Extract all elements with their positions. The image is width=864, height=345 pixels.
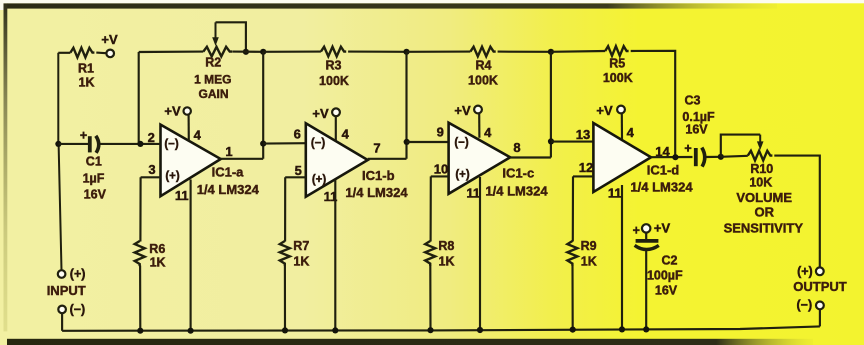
label (−) input IC1-b — [311, 138, 326, 150]
label GAIN — [199, 87, 229, 101]
pin 12 IC1-d — [579, 160, 593, 175]
wire: R1 to +V terminal — [96, 52, 106, 55]
label IC1-b — [362, 168, 395, 183]
input terminal (+) — [58, 270, 66, 278]
label C3 — [685, 93, 701, 107]
junction: C1 / feedback / pin2 — [137, 141, 143, 147]
svg-text:INPUT: INPUT — [47, 283, 86, 298]
svg-text:R8: R8 — [438, 239, 454, 253]
label +V (IC1-d) — [596, 103, 613, 118]
label R1 — [78, 62, 94, 76]
svg-text:1K: 1K — [79, 76, 95, 90]
svg-text:3: 3 — [148, 162, 155, 177]
wire: top rail riser3 to R4 — [407, 51, 471, 53]
wire: R10 left lead — [721, 156, 748, 157]
wire: pin11 column IC1-c — [479, 177, 481, 330]
wire: pin3 column / R6 column — [139, 177, 142, 330]
value 16V (C1) — [84, 187, 107, 201]
output terminal (+) — [816, 267, 824, 275]
label R7 — [293, 239, 309, 253]
pin 14 IC1-d — [655, 144, 670, 159]
svg-text:1µF: 1µF — [83, 172, 105, 186]
junction: riser2 / pin6 branch — [260, 141, 266, 147]
junction: rail / output riser stage3 — [548, 49, 554, 55]
wire: pin9 branch to IC1-c — [407, 141, 449, 143]
label (−) output — [796, 298, 812, 312]
pin 11 IC1-d — [608, 185, 622, 200]
label 1/4 LM324 (IC1-d) — [630, 180, 693, 195]
resistor R6 — [135, 241, 145, 266]
label INPUT — [47, 283, 86, 298]
value 1K (R7) — [293, 255, 309, 269]
pin 3 IC1-a — [148, 162, 155, 177]
wire: top rail riser4 to R5 — [551, 50, 605, 53]
svg-text:11: 11 — [466, 186, 480, 201]
svg-text:(+): (+) — [70, 267, 86, 281]
svg-text:1K: 1K — [581, 255, 597, 269]
pin 7 IC1-b — [373, 141, 380, 156]
resistor R8 — [425, 241, 435, 266]
svg-text:IC1-d: IC1-d — [647, 163, 680, 178]
wire: input (−) to ground rail — [61, 313, 63, 330]
label R3 — [326, 58, 342, 72]
svg-text:1 MEG: 1 MEG — [194, 73, 231, 87]
pin 8 IC1-c — [513, 140, 520, 155]
value 1K (R8) — [439, 255, 455, 269]
label (−) input IC1-a — [164, 139, 179, 151]
power +V terminal (IC1-d) — [617, 106, 625, 114]
svg-text:11: 11 — [175, 188, 189, 203]
wire: IC1-c output to riser4 — [510, 52, 551, 158]
svg-text:+V: +V — [101, 32, 118, 47]
label +V (IC1-b) — [312, 106, 329, 121]
wire: C1 to pin2 junction — [100, 143, 141, 145]
label (+) input — [70, 267, 86, 281]
label 1/4 LM324 (IC1-b) — [345, 185, 408, 200]
svg-text:11: 11 — [608, 185, 622, 200]
value 0.1µF (C3) — [682, 110, 715, 124]
junction: ground rail / pin11-b — [332, 327, 338, 333]
svg-text:(+): (+) — [797, 264, 813, 278]
pin 4 IC1-a — [194, 127, 202, 142]
capacitor C2 — [635, 233, 659, 250]
junction: ground rail / R7 — [282, 327, 288, 333]
svg-text:R9: R9 — [581, 239, 597, 253]
wire: pin4 IC1-a to +V — [188, 115, 190, 141]
svg-text:+V: +V — [654, 220, 671, 235]
junction: ground rail / C2 — [643, 326, 649, 332]
power +V terminal (IC1-b) — [332, 108, 340, 116]
label 1/4 LM324 (IC1-c) — [485, 183, 548, 198]
svg-text:9: 9 — [437, 125, 444, 140]
svg-text:+: + — [633, 224, 640, 238]
svg-text:GAIN: GAIN — [199, 87, 229, 101]
junction: rail / output riser stage1 — [260, 49, 266, 55]
op-amp U1 IC1-b — [306, 123, 368, 196]
wire: pin10 column / R8 column — [429, 176, 432, 330]
label R6 — [149, 242, 165, 256]
label R5 — [609, 57, 625, 71]
svg-text:1/4 LM324: 1/4 LM324 — [345, 185, 408, 200]
value 16V (C2) — [655, 284, 678, 298]
pin 4 IC1-b — [342, 126, 350, 141]
svg-text:C1: C1 — [86, 154, 102, 168]
wire: C2 to ground rail — [645, 249, 647, 330]
potentiometer R2 — [203, 22, 232, 56]
resistor R9 — [567, 241, 577, 266]
power +V terminal (IC1-a) — [184, 107, 191, 114]
svg-text:1/4 LM324: 1/4 LM324 — [197, 182, 260, 197]
label R10 — [750, 162, 773, 176]
svg-text:(−): (−) — [164, 139, 179, 151]
pin 13 IC1-d — [576, 127, 590, 142]
label R4 — [476, 59, 492, 73]
value 100K (R3) — [319, 74, 349, 88]
svg-text:R5: R5 — [609, 57, 625, 71]
wire: feedback riser stage1 (rail to pin2 node) — [138, 52, 140, 144]
power +V terminal (R1) — [106, 50, 114, 58]
op-amp U1 IC1-c — [449, 123, 511, 194]
label C1 — [86, 154, 102, 168]
svg-text:C2: C2 — [662, 253, 678, 267]
pin 5 IC1-b — [295, 163, 302, 178]
svg-text:VOLUME: VOLUME — [736, 190, 792, 205]
pin 2 IC1-a — [148, 130, 155, 145]
wire: R2 wiper loop — [216, 22, 246, 52]
svg-text:IC1-c: IC1-c — [502, 166, 534, 181]
svg-text:(−): (−) — [70, 302, 86, 316]
wire: pin3 stub IC1-a — [141, 176, 161, 178]
svg-text:10: 10 — [434, 162, 448, 177]
wire: pin4 IC1-b to +V — [335, 116, 337, 140]
value 100K (R4) — [468, 74, 498, 88]
svg-text:+V: +V — [596, 103, 613, 118]
label +V (C2) — [654, 220, 671, 235]
svg-text:IC1-b: IC1-b — [362, 168, 395, 183]
polarity + (C1) — [80, 129, 87, 143]
svg-text:1K: 1K — [150, 256, 166, 270]
svg-text:12: 12 — [579, 160, 593, 175]
svg-text:16V: 16V — [84, 187, 107, 201]
svg-text:+: + — [684, 141, 691, 155]
svg-text:16V: 16V — [655, 284, 678, 298]
svg-text:OUTPUT: OUTPUT — [793, 279, 847, 294]
wire: R10 to output (+) drop — [774, 156, 820, 268]
pin 11 IC1-b — [324, 189, 338, 204]
svg-text:100K: 100K — [319, 74, 349, 88]
wire: IC1-a output to riser2 — [221, 52, 264, 159]
label (−) input IC1-c — [454, 137, 469, 149]
label R8 — [438, 239, 454, 253]
svg-text:4: 4 — [342, 126, 350, 141]
power +V terminal (C2) — [642, 224, 650, 232]
label VOLUME — [736, 190, 792, 205]
wire: top rail riser2 to R3 — [263, 51, 321, 53]
junction: ground rail / R9 — [570, 327, 576, 333]
label OUTPUT — [793, 279, 847, 294]
junction: ground rail / R6 — [137, 328, 143, 334]
wire: pin11 column IC1-b — [334, 180, 336, 331]
polarity + (C2) — [633, 224, 640, 238]
svg-text:R10: R10 — [750, 162, 773, 176]
junction: ground rail / R8 — [427, 327, 433, 333]
pin 9 IC1-c — [437, 125, 444, 140]
wire: C1 left lead — [58, 143, 88, 145]
svg-text:6: 6 — [294, 126, 301, 141]
power +V terminal (IC1-c) — [474, 106, 482, 114]
label +V (IC1-a) — [164, 103, 181, 118]
svg-text:OR: OR — [755, 204, 775, 219]
svg-text:+V: +V — [164, 103, 181, 118]
svg-text:1/4 LM324: 1/4 LM324 — [485, 183, 548, 198]
capacitor C1 — [90, 136, 99, 153]
label OR — [755, 204, 775, 219]
label 1/4 LM324 (IC1-a) — [197, 182, 260, 197]
wire: left vertical rail (input to C1/R1) — [58, 53, 61, 270]
svg-text:5: 5 — [295, 163, 302, 178]
capacitor C3 — [696, 148, 705, 167]
pin 11 IC1-c — [466, 186, 480, 201]
value 1K (R9) — [581, 255, 597, 269]
wire: R1 left lead from left rail corner — [58, 52, 70, 54]
pin 1 IC1-a — [225, 144, 232, 159]
pin 10 IC1-c — [434, 162, 448, 177]
wire: pin4 IC1-c to +V — [478, 113, 480, 137]
wire: top rail R5 to right corner + drop to pin14 — [631, 51, 676, 158]
svg-text:(+): (+) — [312, 174, 327, 186]
svg-text:(+): (+) — [455, 169, 470, 181]
svg-text:(−): (−) — [454, 137, 469, 149]
resistor R4 — [470, 47, 495, 57]
svg-text:8: 8 — [513, 140, 520, 155]
wire: top rail segment R2-left — [139, 51, 204, 54]
value 10K (R10) — [749, 175, 772, 189]
wire: pin6 branch to IC1-b — [263, 142, 306, 145]
svg-text:+V: +V — [454, 103, 471, 118]
svg-text:+V: +V — [312, 106, 329, 121]
junction: output / riser5 — [672, 154, 678, 160]
label (+) output — [797, 264, 813, 278]
label (−) input — [70, 302, 86, 316]
potentiometer R10 — [748, 135, 773, 161]
svg-text:R7: R7 — [293, 239, 309, 253]
wire: top rail R3 to riser3 — [348, 51, 406, 53]
value 100µF (C2) — [647, 269, 683, 283]
wire: C3 to R10 node — [706, 156, 721, 158]
resistor R3 — [321, 47, 346, 57]
label R9 — [581, 239, 597, 253]
label R2 — [205, 56, 221, 70]
wire: IC1-d output to C3 — [651, 156, 693, 158]
junction: riser3 / pin9 branch — [404, 139, 410, 145]
op-amp U1 IC1-d — [593, 123, 651, 192]
svg-text:R3: R3 — [326, 58, 342, 72]
op-amp U1 IC1-a — [161, 125, 221, 197]
wire: pin11 column IC1-d — [621, 185, 623, 330]
value 16V (C3) — [685, 123, 708, 137]
svg-text:+: + — [80, 129, 87, 143]
wire: R10 wiper loop — [721, 135, 760, 157]
value 1K (R6) — [150, 256, 166, 270]
junction: ground rail / pin11-d — [619, 326, 625, 332]
value 1 MEG (R2) — [194, 73, 231, 87]
label SENSITIVITY — [724, 220, 804, 235]
output terminal (−) — [816, 302, 824, 310]
svg-text:13: 13 — [576, 127, 590, 142]
wire: pin4 IC1-d to +V — [621, 113, 623, 139]
svg-text:10K: 10K — [749, 175, 772, 189]
wire: pin2 stub IC1-a — [140, 143, 160, 145]
svg-text:100K: 100K — [468, 74, 498, 88]
value 1K (R1) — [79, 76, 95, 90]
svg-text:4: 4 — [627, 125, 635, 140]
resistor R5 — [605, 46, 628, 56]
label (+) input IC1-a — [165, 171, 180, 183]
svg-text:4: 4 — [194, 127, 202, 142]
label C2 — [662, 253, 678, 267]
wire: pin13 branch to IC1-d — [551, 141, 593, 143]
svg-text:R4: R4 — [476, 59, 492, 73]
junction: R2 wiper / rail — [243, 49, 249, 55]
svg-text:R6: R6 — [149, 242, 165, 256]
junction: ground rail / pin11-c — [477, 327, 483, 333]
resistor R1 — [70, 48, 94, 58]
wire: pin5 column / R7 column — [284, 177, 286, 330]
pin 4 IC1-c — [484, 125, 492, 140]
resistor R7 — [280, 241, 290, 266]
svg-text:C3: C3 — [685, 93, 701, 107]
svg-text:R1: R1 — [78, 62, 94, 76]
wire: pin12 stub IC1-d — [573, 175, 593, 177]
svg-text:SENSITIVITY: SENSITIVITY — [724, 220, 804, 235]
junction: ground rail / pin11-a — [188, 328, 194, 334]
wire: ground rail — [62, 326, 820, 330]
pin 11 IC1-a — [175, 188, 189, 203]
wire: pin10 stub IC1-c — [431, 175, 449, 177]
svg-text:IC1-a: IC1-a — [212, 165, 245, 180]
wire: pin11 column IC1-a — [190, 180, 192, 331]
wire: IC1-b output to riser3 — [368, 52, 407, 159]
svg-text:(+): (+) — [165, 171, 180, 183]
label (+) input IC1-b — [312, 174, 327, 186]
svg-text:(−): (−) — [796, 298, 812, 312]
junction: riser4 / pin13 branch — [548, 138, 554, 144]
pin 4 IC1-d — [627, 125, 635, 140]
svg-text:100µF: 100µF — [647, 269, 683, 283]
wire: pin5 stub IC1-b — [285, 176, 306, 178]
svg-text:1K: 1K — [439, 255, 455, 269]
pin 6 IC1-b — [294, 126, 301, 141]
label (+) input IC1-c — [455, 169, 470, 181]
junction: rail / output riser stage2 — [403, 49, 409, 55]
svg-text:16V: 16V — [685, 123, 708, 137]
svg-text:(−): (−) — [311, 138, 326, 150]
label +V (IC1-c) — [454, 103, 471, 118]
label IC1-c — [502, 166, 534, 181]
label +V (R1) — [101, 32, 118, 47]
value 100K (R5) — [603, 71, 633, 85]
svg-text:100K: 100K — [603, 71, 633, 85]
wire: pin12 column / R9 column — [571, 176, 574, 330]
label IC1-a — [212, 165, 245, 180]
label IC1-d — [647, 163, 680, 178]
value 1µF (C1) — [83, 172, 105, 186]
svg-text:7: 7 — [373, 141, 380, 156]
junction: C3 / R10 wiper loop — [718, 154, 724, 160]
svg-text:4: 4 — [484, 125, 492, 140]
svg-text:1/4 LM324: 1/4 LM324 — [630, 180, 693, 195]
wire: top rail R4 to riser4 — [498, 51, 551, 53]
svg-text:1: 1 — [225, 144, 232, 159]
wire: output (−) drop to ground rail — [819, 310, 821, 327]
input terminal (−) — [58, 306, 66, 314]
svg-text:1K: 1K — [293, 255, 309, 269]
svg-text:R2: R2 — [205, 56, 221, 70]
wire: top rail R2 to riser2 — [232, 51, 263, 53]
junction: left rail / C1 — [55, 141, 61, 147]
polarity + (C3) — [684, 141, 691, 155]
